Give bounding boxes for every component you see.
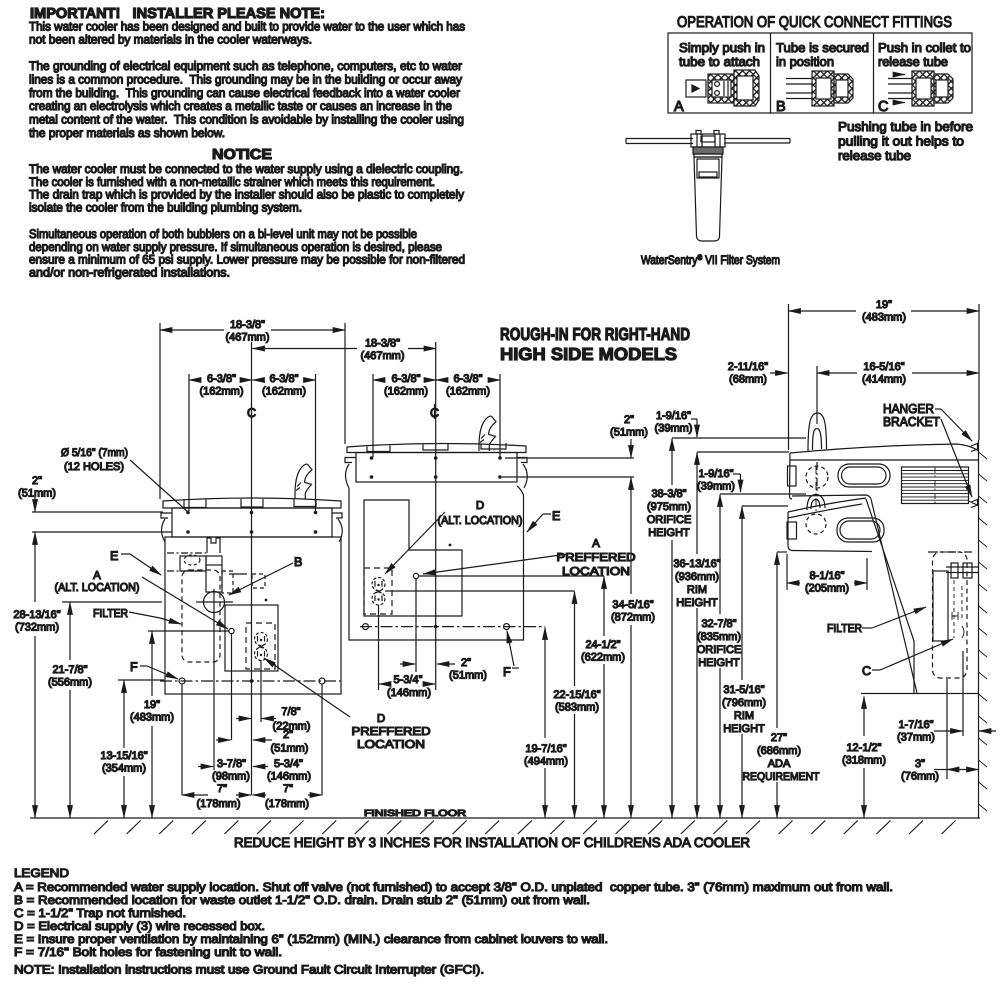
svg-text:PREFFERED: PREFFERED (352, 726, 431, 738)
dim 5-3/4 left unit (253, 766, 268, 768)
svg-text:22-15/16": 22-15/16" (553, 689, 600, 701)
centerline left unit vertical (251, 342, 253, 795)
ref line orifice upper cooler (672, 437, 806, 439)
svg-text:19": 19" (876, 299, 892, 311)
svg-text:B: B (776, 99, 786, 115)
left unit bolt hole F left (179, 678, 185, 684)
svg-text:F: F (130, 660, 138, 674)
leaders hanger bracket (935, 408, 941, 410)
upper cooler bubbler (808, 413, 827, 451)
svg-text:(51mm): (51mm) (449, 670, 487, 682)
svg-text:Pushing tube in before: Pushing tube in before (838, 119, 973, 134)
dim 28-13/16 vertical (34, 533, 36, 603)
svg-text:(494mm): (494mm) (524, 756, 568, 768)
left unit outlet vertical (260, 660, 262, 722)
svg-text:1-9/16": 1-9/16" (656, 410, 691, 422)
dim 22-15/16 vertical (574, 592, 576, 687)
ref line outlet to dim (385, 590, 575, 592)
svg-text:NOTE: Installation instruction: NOTE: Installation instructions must use… (14, 963, 484, 977)
svg-text:A = Recommended water supply l: A = Recommended water supply location. S… (14, 880, 893, 894)
left unit trap circle B (204, 592, 225, 613)
svg-text:D: D (377, 713, 385, 725)
svg-text:D = Electrical supply (3) wire: D = Electrical supply (3) wire recessed … (14, 919, 265, 933)
dim 36-13/16 rim height (696, 453, 698, 555)
svg-text:7": 7" (283, 783, 293, 795)
svg-text:(ALT. LOCATION): (ALT. LOCATION) (438, 515, 523, 527)
svg-text:A: A (93, 570, 101, 582)
svg-text:the proper materials as shown: the proper materials as shown below. (29, 126, 225, 140)
wall filter dashed outline (933, 552, 968, 678)
middle unit body (349, 486, 524, 640)
svg-text:RIM: RIM (734, 710, 754, 722)
svg-text:34-5/16": 34-5/16" (612, 599, 653, 611)
svg-text:6-3/8": 6-3/8" (454, 373, 483, 385)
side panel diagonal upper (871, 499, 917, 693)
svg-text:E: E (552, 509, 560, 523)
svg-text:3-7/8": 3-7/8" (217, 758, 246, 770)
svg-text:HEIGHT: HEIGHT (723, 723, 765, 735)
svg-text:12-1/2": 12-1/2" (846, 742, 881, 754)
svg-text:ROUGH-IN FOR RIGHT-HAND: ROUGH-IN FOR RIGHT-HAND (500, 324, 690, 344)
svg-text:metal content of the water. T: metal content of the water. This conditi… (29, 113, 464, 127)
svg-text:LOCATION: LOCATION (562, 566, 630, 578)
leader A alt left (142, 577, 228, 629)
filter head (691, 134, 725, 147)
dim 16-5/16 (817, 372, 857, 374)
svg-text:A: A (674, 99, 684, 115)
dim 27 ADA requirement (776, 553, 778, 729)
svg-text:(796mm): (796mm) (722, 697, 766, 709)
svg-text:(162mm): (162mm) (262, 386, 306, 398)
cell A fitting graphic (686, 80, 706, 97)
svg-text:release tube: release tube (878, 54, 948, 69)
svg-text:(51mm): (51mm) (18, 488, 56, 500)
left unit vent cluster dash-dot (167, 552, 206, 554)
middle unit lid notches (367, 446, 390, 452)
svg-text:(68mm): (68mm) (729, 374, 767, 386)
svg-text:2": 2" (624, 414, 634, 426)
marker A alt left (229, 628, 234, 633)
svg-text:(162mm): (162mm) (384, 386, 428, 398)
middle unit bubbler (479, 416, 496, 451)
svg-text:31-5/16": 31-5/16" (723, 684, 764, 696)
left unit bolt hole F right (319, 678, 325, 684)
cell B fitting graphic (786, 78, 816, 80)
svg-text:(835mm): (835mm) (697, 631, 741, 643)
svg-text:3": 3" (915, 758, 925, 770)
svg-text:5-3/4": 5-3/4" (274, 758, 303, 770)
svg-text:and/or non-refrigerated instal: and/or non-refrigerated installations. (29, 265, 230, 279)
dot middle unit (449, 544, 452, 547)
svg-text:(732mm): (732mm) (15, 622, 59, 634)
svg-text:from the building. This groun: from the building. This grounding can ca… (29, 86, 460, 100)
svg-text:(146mm): (146mm) (267, 771, 311, 783)
dim 19-7/16 vertical (544, 628, 546, 739)
centerline middle unit vertical (435, 342, 437, 690)
svg-text:in position: in position (776, 54, 834, 69)
svg-text:Simply push in: Simply push in (679, 40, 765, 55)
svg-text:This water cooler has been des: This water cooler has been designed and … (29, 20, 465, 34)
cell C fitting graphic (888, 78, 916, 80)
filter cartridge body (694, 157, 722, 241)
svg-text:1-7/16": 1-7/16" (898, 719, 933, 731)
middle unit bolt hole left (363, 624, 369, 630)
svg-text:7/8": 7/8" (281, 706, 300, 718)
svg-text:2": 2" (32, 475, 42, 487)
dim 7 inch right (253, 794, 267, 796)
left unit basin band (172, 508, 332, 537)
svg-text:F: F (503, 665, 511, 679)
upper cooler bottom (792, 495, 871, 499)
svg-text:7": 7" (217, 783, 227, 795)
svg-text:The grounding of electrical eq: The grounding of electrical equipment su… (29, 59, 462, 73)
svg-text:(162mm): (162mm) (446, 386, 490, 398)
svg-text:WaterSentry® VII Filter System: WaterSentry® VII Filter System (641, 253, 780, 268)
left unit filter dashed outline (182, 570, 220, 662)
svg-text:NOTICE: NOTICE (212, 147, 272, 163)
svg-text:PREFFERED: PREFFERED (557, 552, 636, 564)
svg-text:(76mm): (76mm) (901, 771, 939, 783)
dim 18-3/8 left unit width (160, 329, 224, 331)
svg-text:24-1/2": 24-1/2" (585, 639, 620, 651)
hanger bracket glyph upper (971, 444, 978, 452)
extension bubbler plane (816, 366, 818, 424)
svg-text:HEIGHT: HEIGHT (676, 597, 718, 609)
svg-text:(39mm): (39mm) (655, 423, 693, 435)
dim 19 side top (789, 310, 857, 312)
svg-text:not been altered by materials: not been altered by materials in the coo… (29, 33, 312, 47)
filter supply tube right (724, 139, 790, 144)
left unit waste dashed box right (222, 571, 233, 593)
dim 21-7/8 vertical (69, 603, 71, 661)
svg-text:Ø 5/16" (7mm): Ø 5/16" (7mm) (61, 447, 128, 459)
middle unit recess L-outline (364, 500, 462, 616)
ref line rim upper left (32, 511, 163, 513)
marker A preferred middle (413, 573, 418, 578)
svg-text:18-3/8": 18-3/8" (365, 338, 400, 350)
dim 19 vertical (151, 632, 153, 697)
dim 7/8 left unit (236, 718, 251, 720)
dim 7 inch left (182, 794, 208, 796)
svg-text:ORIFICE: ORIFICE (697, 644, 742, 656)
svg-text:REQUIREMENT: REQUIREMENT (743, 771, 820, 783)
middle unit basin band (356, 453, 517, 483)
svg-text:16-5/16": 16-5/16" (863, 361, 904, 373)
svg-text:(205mm): (205mm) (805, 583, 849, 595)
svg-text:(51mm): (51mm) (610, 427, 648, 439)
svg-text:28-13/16": 28-13/16" (13, 609, 60, 621)
svg-text:creating an electrolysis which: creating an electrolysis which creates a… (29, 99, 452, 113)
svg-text:(178mm): (178mm) (196, 798, 240, 810)
wall hatch ticks (979, 452, 988, 811)
middle unit A vertical (415, 579, 417, 672)
left unit bolt line dash-dot (160, 680, 341, 682)
svg-text:LOCATION: LOCATION (357, 739, 425, 751)
svg-text:1-9/16": 1-9/16" (698, 468, 733, 480)
lower cooler recess oval (837, 518, 884, 542)
ref line orifice lower cooler (720, 493, 806, 495)
ref line rim lower cooler (742, 505, 788, 507)
svg-text:C: C (878, 99, 888, 115)
ref line A-alt height (148, 630, 229, 632)
dim 6-3/8 mid-right (436, 379, 444, 381)
svg-text:2": 2" (461, 657, 471, 669)
dim 18-3/8 center to center (253, 348, 358, 350)
left unit side bracket right (332, 513, 342, 518)
dim 34-5/16 vertical (630, 478, 632, 595)
left unit drain fitting top (207, 538, 220, 553)
svg-text:HEIGHT: HEIGHT (648, 527, 690, 539)
svg-text:FILTER: FILTER (93, 608, 128, 620)
dim 24-1/2 vertical (603, 577, 605, 637)
filter drain verticals (946, 679, 948, 779)
svg-text:C = 1-1/2" Trap not furnished.: C = 1-1/2" Trap not furnished. (14, 906, 186, 920)
upper cooler louver panel (902, 467, 969, 504)
left unit electrical dashed box (246, 623, 275, 669)
extension lines 8-1/16 (786, 554, 788, 590)
wall filter bracket (933, 571, 948, 641)
left unit lid notches (184, 500, 206, 508)
lower cooler bubbler (807, 495, 825, 511)
dim 6-3/8 mid-left (373, 379, 382, 381)
svg-text:(556mm): (556mm) (48, 677, 92, 689)
svg-text:FINISHED FLOOR: FINISHED FLOOR (364, 808, 467, 818)
svg-text:36-13/16": 36-13/16" (673, 558, 720, 570)
middle unit lid (347, 443, 526, 452)
svg-text:(146mm): (146mm) (387, 687, 431, 699)
ref line lower hole row middle (502, 476, 634, 478)
middle unit mounting holes upper row (370, 456, 374, 460)
svg-text:13-15/16": 13-15/16" (100, 750, 147, 762)
svg-text:B: B (294, 555, 302, 569)
extension lines middle unit holes (372, 374, 374, 457)
dim 32-7/8 orifice height lower (719, 495, 721, 615)
left unit waste stub box (206, 556, 222, 592)
dim 2 inch left unit bottom (216, 739, 231, 741)
svg-text:FILTER: FILTER (827, 623, 862, 635)
upper cooler bubbler dashed projection (806, 466, 828, 488)
ref line rim upper cooler (697, 451, 789, 453)
svg-text:(354mm): (354mm) (102, 763, 146, 775)
left unit F verticals to 7in dim (181, 684, 183, 795)
dim 2 inch middle bottom (400, 663, 415, 665)
svg-text:2-11/16": 2-11/16" (728, 361, 768, 373)
extension wall plane top (978, 304, 980, 440)
svg-text:REDUCE HEIGHT BY 3 INCHES FOR: REDUCE HEIGHT BY 3 INCHES FOR INSTALLATI… (234, 835, 750, 850)
svg-text:(162mm): (162mm) (199, 386, 243, 398)
svg-text:B = Recommended location for w: B = Recommended location for waste outle… (14, 893, 590, 907)
svg-text:(686mm): (686mm) (757, 745, 801, 757)
svg-text:19-7/16": 19-7/16" (525, 743, 566, 755)
svg-text:HEIGHT: HEIGHT (698, 657, 740, 669)
svg-text:release tube: release tube (838, 148, 911, 163)
svg-text:RIM: RIM (687, 584, 707, 596)
svg-text:6-3/8": 6-3/8" (270, 373, 299, 385)
svg-text:OPERATION OF QUICK CONNECT FIT: OPERATION OF QUICK CONNECT FITTINGS (677, 14, 952, 31)
svg-text:ORIFICE: ORIFICE (647, 514, 692, 526)
dim 6-3/8 left-right (253, 379, 262, 381)
svg-text:F = 7/16" Bolt holes for faste: F = 7/16" Bolt holes for fastening unit … (14, 945, 282, 959)
svg-text:C: C (862, 664, 871, 678)
lower cooler front pad (787, 522, 797, 539)
filter supply tube left (626, 139, 693, 144)
svg-text:pulling it out helps to: pulling it out helps to (838, 134, 964, 149)
svg-text:LEGEND: LEGEND (14, 866, 69, 880)
upper cooler top (790, 444, 979, 453)
filter label (697, 159, 719, 178)
svg-text:(622mm): (622mm) (581, 652, 625, 664)
hanger bracket glyph lower (971, 500, 978, 508)
lower cooler bottom (792, 551, 872, 552)
leader 12 holes (130, 460, 188, 512)
dim 13-15/16 vertical (123, 681, 125, 749)
upper cooler front pad (788, 466, 797, 486)
svg-text:E: E (110, 549, 118, 563)
ref line bolt height stub (118, 679, 164, 681)
svg-text:E = Insure proper ventilation: E = Insure proper ventilation by maintai… (14, 932, 608, 946)
svg-text:HIGH SIDE MODELS: HIGH SIDE MODELS (500, 344, 677, 364)
svg-text:5-3/4": 5-3/4" (394, 674, 423, 686)
svg-text:19": 19" (144, 699, 160, 711)
dim 5-3/4 middle (379, 683, 387, 685)
extension line x345 (344, 323, 346, 444)
svg-text:(ALT. LOCATION): (ALT. LOCATION) (55, 582, 140, 594)
left unit drain pipe vertical (213, 613, 215, 770)
middle unit duplex outlet (372, 578, 385, 591)
svg-text:8-1/16": 8-1/16" (809, 570, 844, 582)
dim 3-7/8 left unit (198, 766, 213, 768)
side panel diagonal lower (866, 499, 914, 694)
leader A preferred middle (423, 554, 568, 574)
svg-text:(583mm): (583mm) (555, 702, 599, 714)
lower cooler bubbler dashed projection (806, 514, 826, 534)
svg-text:(467mm): (467mm) (360, 350, 404, 362)
svg-text:(51mm): (51mm) (271, 743, 309, 755)
dim 38-3/8 orifice height (671, 439, 673, 486)
dim 6-3/8 left-left (189, 379, 198, 381)
dim 31-5/16 rim height lower (741, 507, 743, 681)
mounting box bottom (861, 693, 979, 695)
left unit mounting holes lower row (186, 530, 190, 534)
ref line waste height (62, 601, 162, 603)
svg-text:(936mm): (936mm) (675, 571, 719, 583)
svg-text:6-3/8": 6-3/8" (207, 373, 236, 385)
svg-text:32-7/8": 32-7/8" (701, 618, 736, 630)
middle unit outlet vertical (378, 605, 380, 690)
lower cooler top (788, 498, 866, 512)
extension lines left unit holes (188, 374, 190, 511)
svg-text:lines is a common procedure.: lines is a common procedure. This ground… (29, 72, 463, 86)
middle unit electrical dashed box (364, 568, 392, 614)
left unit body (165, 537, 341, 694)
svg-text:21-7/8": 21-7/8" (52, 664, 87, 676)
upper cooler front face (790, 453, 793, 499)
dim 8-1/16 (787, 582, 800, 584)
floor line (30, 817, 980, 819)
svg-text:Push in collet to: Push in collet to (878, 40, 971, 55)
svg-text:27": 27" (771, 732, 787, 744)
dim 12-1/2 vertical (863, 697, 865, 737)
left unit electrical zone box (225, 605, 278, 671)
wall line (978, 440, 980, 818)
middle unit side bracket left (345, 458, 356, 463)
svg-text:6-3/8": 6-3/8" (392, 373, 421, 385)
middle unit bolt hole right (504, 624, 510, 630)
svg-text:(37mm): (37mm) (897, 732, 935, 744)
leader D alt middle (385, 512, 445, 574)
quick connect box frame (668, 33, 972, 113)
svg-text:(483mm): (483mm) (130, 712, 174, 724)
label D PREFFERED LOCATION left (264, 658, 350, 717)
svg-text:(39mm): (39mm) (697, 481, 735, 493)
svg-text:BRACKET: BRACKET (883, 414, 940, 429)
ref line ADA underside (777, 551, 787, 553)
svg-text:18-3/8": 18-3/8" (230, 319, 265, 331)
left unit A-alt vertical (231, 634, 233, 740)
left unit side bracket left (161, 513, 172, 518)
svg-text:(414mm): (414mm) (862, 374, 906, 386)
svg-text:(483mm): (483mm) (862, 312, 906, 324)
left unit mounting holes upper row (186, 511, 190, 515)
svg-text:tube to attach: tube to attach (679, 54, 760, 69)
svg-text:(178mm): (178mm) (265, 798, 309, 810)
svg-text:(872mm): (872mm) (611, 612, 655, 624)
floor hatching (94, 821, 956, 835)
svg-text:38-3/8": 38-3/8" (651, 488, 686, 500)
svg-text:ADA: ADA (768, 758, 791, 770)
left unit bubbler (295, 464, 312, 499)
left unit lid (163, 498, 341, 508)
middle unit side bracket right (517, 458, 527, 463)
ref line A preferred to dim (419, 575, 604, 577)
upper cooler recess oval (838, 464, 890, 487)
svg-text:(975mm): (975mm) (647, 501, 691, 513)
wall filter top dash-dot (928, 551, 972, 553)
ref line orifice level middle (505, 457, 634, 459)
extension line left x160 (159, 323, 161, 499)
svg-text:(467mm): (467mm) (225, 332, 269, 344)
left unit duplex outlet D (255, 633, 268, 646)
svg-text:Tube is secured: Tube is secured (776, 40, 869, 55)
extension front plane (788, 304, 790, 450)
svg-text:(318mm): (318mm) (842, 755, 886, 767)
svg-text:D: D (476, 500, 484, 512)
filter collar band (693, 147, 723, 154)
ref line rim lower left (32, 531, 172, 533)
middle unit mounting holes lower row (370, 475, 374, 479)
middle unit bolt line dash-dot (360, 626, 545, 628)
svg-text:isolate the cooler from the bu: isolate the cooler from the building plu… (29, 200, 302, 214)
svg-text:A: A (592, 538, 600, 550)
lower cooler front face (788, 512, 792, 551)
svg-text:(12 HOLES): (12 HOLES) (64, 461, 124, 473)
wall filter fittings (951, 563, 958, 578)
left unit vent dashed circle (184, 555, 200, 565)
upper cooler counter line (790, 459, 979, 461)
svg-text:(98mm): (98mm) (212, 771, 250, 783)
svg-text:2": 2" (283, 729, 293, 741)
